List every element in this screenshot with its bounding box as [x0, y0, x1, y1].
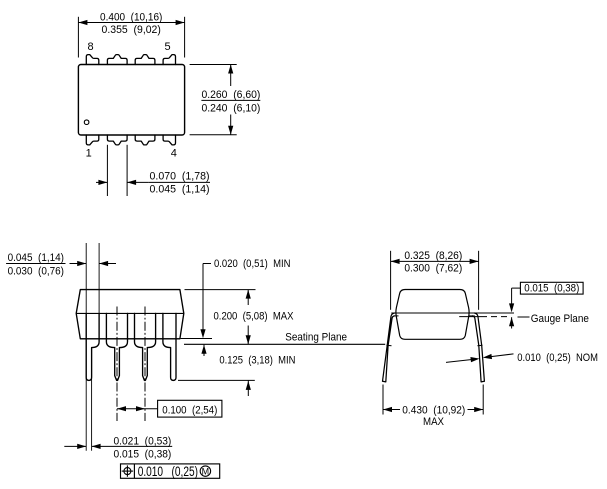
svg-text:0.325 (8,26): 0.325 (8,26)	[404, 250, 462, 262]
M circle (MMC)	[200, 466, 210, 476]
dim 0.125 lower arrow	[247, 380, 249, 396]
dim 0.015 box	[520, 282, 583, 294]
svg-text:Gauge Plane: Gauge Plane	[531, 313, 589, 325]
pin 1 index dot	[84, 120, 89, 125]
dim 0.400/0.355 dimension line	[78, 22, 184, 24]
dim 0.070/0.045 extension lines	[106, 145, 108, 196]
svg-text:0.430 (10,92): 0.430 (10,92)	[402, 404, 465, 416]
svg-text:0.125 (3,18) MIN: 0.125 (3,18) MIN	[219, 354, 295, 366]
dim 0.260/0.240 dimension line	[230, 65, 232, 87]
svg-text:0.010 (0,25) NOM: 0.010 (0,25) NOM	[517, 352, 598, 364]
end view: lead top surface line	[391, 312, 514, 314]
svg-text:8: 8	[87, 41, 93, 53]
ext line thin-lead right (x=91.6)	[91, 348, 93, 451]
feature control frame box	[121, 464, 220, 478]
dim 0.020 leader	[203, 263, 211, 265]
svg-text:5: 5	[164, 41, 170, 53]
svg-text:M: M	[202, 466, 210, 476]
pin 2 tab (top view)	[107, 135, 127, 145]
svg-text:4: 4	[171, 147, 177, 159]
svg-text:0.045 (1,14): 0.045 (1,14)	[150, 183, 210, 195]
centerline lead 2	[116, 307, 118, 422]
fraction bar 0.260/0.240	[201, 99, 260, 101]
dim 0.070/0.045 dimension line + arrows	[96, 181, 107, 183]
seating plane line	[184, 343, 385, 345]
pin 3 tab (top view)	[135, 135, 155, 145]
dim 0.100 box	[158, 400, 222, 417]
right lead kink tick	[477, 344, 482, 347]
dim 0.045/0.030 line + arrows	[6, 263, 65, 265]
dim 0.200 dimension line	[247, 290, 249, 305]
svg-text:0.200 (5,08) MAX: 0.200 (5,08) MAX	[214, 311, 295, 323]
pin 1 tab (top view)	[86, 135, 99, 145]
dim 0.325/0.300 extension lines	[390, 251, 392, 310]
side view: body bottom edge	[80, 338, 180, 340]
dim 0.430 dimension line	[383, 409, 400, 411]
side view: package body outline	[76, 290, 184, 339]
top view: package body outline	[78, 65, 184, 136]
lead tip extension line	[178, 379, 255, 381]
svg-text:1: 1	[86, 147, 92, 159]
end view left lead	[383, 313, 395, 382]
side view lead 1	[86, 313, 99, 380]
end view: package body outline	[396, 290, 469, 340]
svg-text:0.355 (9,02): 0.355 (9,02)	[102, 24, 161, 36]
svg-text:0.015 (0,38): 0.015 (0,38)	[524, 283, 579, 295]
ext line wide-lead left (x=86.2)	[85, 243, 87, 451]
left lead kink tick	[386, 344, 391, 347]
side view lead 2	[106, 313, 127, 380]
svg-text:0.240 (6,10): 0.240 (6,10)	[201, 103, 260, 115]
end view right lead	[473, 313, 485, 382]
svg-text:0.015 (0,38): 0.015 (0,38)	[114, 448, 172, 460]
svg-text:0.045 (1,14): 0.045 (1,14)	[8, 252, 64, 264]
fraction bar 0.070/0.045	[149, 181, 210, 183]
side view lead 4	[163, 313, 176, 380]
pin 8 tab (top view)	[86, 55, 99, 65]
svg-text:0.260 (6,60): 0.260 (6,60)	[201, 89, 260, 101]
side view lead 3	[135, 313, 156, 380]
dim 0.100 dimension line + arrows	[117, 408, 158, 410]
dim 0.260/0.240 extension lines	[190, 64, 237, 66]
dim 0.010 leader arrows	[446, 360, 472, 363]
dim 0.430 extension lines	[382, 385, 384, 415]
svg-text:0.400 (10,16): 0.400 (10,16)	[100, 12, 162, 24]
pin 6 tab (top view)	[135, 55, 155, 65]
svg-text:Seating Plane: Seating Plane	[285, 331, 347, 343]
svg-text:0.021 (0,53): 0.021 (0,53)	[114, 435, 172, 447]
ext line wide-lead right (x=99.1)	[98, 243, 100, 342]
svg-text:0.300 (7,62): 0.300 (7,62)	[404, 263, 462, 275]
dim 0.400/0.355 extension lines	[77, 17, 79, 58]
svg-text:0.070 (1,78): 0.070 (1,78)	[150, 171, 210, 183]
dim 0.325/0.300 dimension line	[391, 260, 479, 262]
side view: mold parting line	[76, 312, 184, 314]
svg-text:0.010 (0,25): 0.010 (0,25)	[138, 464, 198, 479]
dim 0.021/0.015 line + arrows	[64, 445, 86, 447]
svg-text:0.030 (0,76): 0.030 (0,76)	[8, 265, 64, 277]
true position symbol	[124, 468, 131, 475]
centerline lead 3	[144, 307, 146, 422]
end view: lead lower edge stubs	[395, 315, 399, 317]
pin 4 tab (top view)	[163, 135, 175, 145]
body bottom extension line	[181, 338, 212, 340]
svg-text:MAX: MAX	[423, 416, 445, 428]
dim 0.200 extension line (top)	[185, 289, 256, 291]
dim 0.015 leader + arrows	[512, 287, 521, 289]
pin 7 tab (top view)	[107, 55, 127, 65]
pin 5 tab (top view)	[163, 55, 175, 65]
svg-text:0.020 (0,51) MIN: 0.020 (0,51) MIN	[214, 258, 291, 270]
svg-text:0.100 (2,54): 0.100 (2,54)	[162, 404, 217, 416]
gauge plane line	[459, 316, 487, 318]
